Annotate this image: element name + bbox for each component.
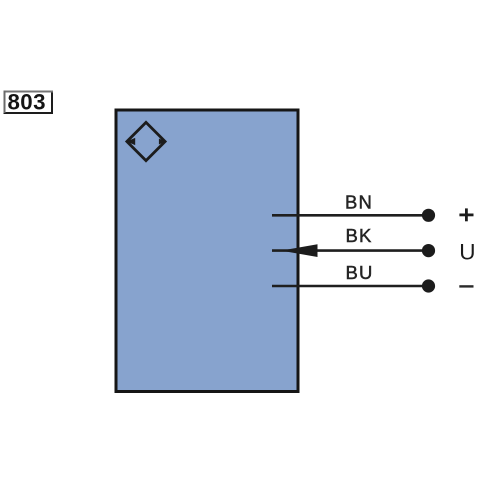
label BK — [345, 225, 372, 246]
label BN — [345, 192, 373, 213]
terminal label + — [459, 208, 473, 221]
wire BN (brown, top) — [272, 214, 428, 217]
sensor symbol: left filled corner triangle — [127, 138, 136, 145]
svg-text:BK: BK — [345, 225, 372, 246]
wire BK (black, middle) — [272, 249, 428, 252]
terminal label U — [459, 239, 475, 264]
svg-text:BN: BN — [345, 192, 373, 213]
terminal dot U (node) — [422, 244, 435, 257]
svg-text:BU: BU — [345, 262, 373, 283]
arrowhead on wire BK pointing left — [281, 244, 318, 257]
terminal label - — [459, 285, 473, 287]
sensor symbol: right filled corner triangle — [159, 139, 165, 145]
label BU — [345, 262, 373, 283]
wire BU (blue, bottom) — [272, 285, 428, 288]
terminal dot - (node) — [422, 279, 435, 292]
sensor body (blue rectangle) — [116, 110, 298, 392]
svg-text:U: U — [459, 239, 475, 264]
svg-text:803: 803 — [7, 89, 45, 114]
terminal dot + (node) — [422, 209, 435, 222]
figure number box 803 — [4, 89, 54, 114]
sensor symbol: diamond — [127, 122, 165, 160]
